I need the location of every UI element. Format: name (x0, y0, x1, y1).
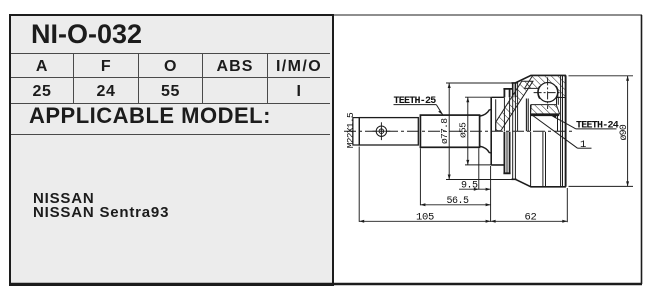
centerline (344, 130, 575, 132)
ext line face (490, 166, 492, 222)
outer race top band hatch (525, 75, 566, 97)
spline bore thick line (530, 113, 559, 116)
boot groove middle line (506, 132, 508, 174)
dim 62 (491, 220, 568, 222)
leader TEETH-24 (551, 115, 576, 129)
neck inner face line (495, 99, 497, 131)
neck top (480, 97, 504, 116)
dim phi90 line (627, 76, 629, 187)
cage lines left (525, 99, 527, 132)
table row line 1 (11, 53, 330, 54)
flange ring bottom (513, 132, 516, 180)
flange ring top (512, 83, 517, 97)
svg-text:9.5: 9.5 (461, 181, 478, 192)
svg-text:ø55: ø55 (458, 122, 469, 138)
value A 25 (11, 83, 73, 101)
table col line 2 (138, 54, 139, 103)
value F 24 (74, 83, 138, 101)
svg-text:105: 105 (416, 212, 434, 224)
value O 55 (139, 83, 202, 101)
svg-text:56.5: 56.5 (447, 196, 470, 207)
dim phi55 line (467, 97, 469, 165)
neck section edge lines (503, 97, 505, 131)
leader TEETH-25 (394, 104, 437, 106)
applicable model heading (29, 103, 271, 129)
table col line 4 (267, 54, 268, 103)
cone and body bottom (515, 179, 566, 187)
drawing frame top (332, 14, 642, 16)
header ABS (203, 58, 267, 76)
threaded shaft M22X1.5 (359, 118, 418, 145)
housing back face line (490, 97, 492, 165)
dim 56.5 (420, 204, 490, 206)
table row line 3 (11, 103, 330, 104)
ball crosshair horizontal (534, 92, 562, 94)
spline shaft TEETH-25 (420, 115, 479, 147)
table col line 1 (73, 54, 74, 103)
boot groove top (503, 89, 512, 97)
value I/M/O I (268, 83, 330, 101)
housing right face (565, 75, 567, 186)
table row line 2 (11, 77, 330, 78)
header A (11, 58, 73, 76)
dim 105 (359, 220, 490, 222)
header F (74, 58, 138, 76)
ball (538, 83, 557, 102)
dim phi77.8 line (448, 83, 450, 180)
svg-text:M22X1.5: M22X1.5 (345, 112, 356, 148)
housing outline bottom half (480, 146, 504, 165)
table row line 4 (11, 134, 330, 135)
ext line 105 left (358, 147, 360, 222)
title NI-O-032 (31, 19, 142, 50)
back wall hatch band (496, 81, 533, 131)
inner section lines bottom half (530, 132, 532, 187)
cage lines right (556, 98, 558, 105)
inner race hatch (531, 105, 560, 114)
header O (139, 58, 202, 76)
center mark circle (376, 126, 386, 136)
ext line 9.5 left (478, 148, 480, 189)
model list (33, 192, 169, 221)
leader 1 (532, 115, 578, 149)
svg-text:1: 1 (580, 139, 586, 151)
face ring lines (560, 75, 562, 186)
dim 9.5 (459, 188, 491, 190)
thread end cap (353, 118, 359, 145)
body top and cone top (515, 75, 566, 83)
drawing frame bottom (9, 283, 642, 285)
spec table (9, 14, 334, 286)
ball crosshair vertical (547, 77, 549, 109)
header I/M/O (268, 58, 330, 76)
svg-text:62: 62 (525, 212, 537, 224)
ext line 62 right (566, 188, 568, 222)
svg-text:ø77.8: ø77.8 (439, 118, 450, 144)
drawing frame right (641, 15, 643, 284)
table col line 3 (202, 54, 203, 103)
svg-text:TEETH-25: TEETH-25 (394, 96, 437, 107)
ext line 56.5 left (419, 148, 421, 205)
race shoulder arcs (538, 86, 558, 99)
svg-text:ø90: ø90 (618, 124, 629, 140)
boot groove bottom (503, 132, 510, 174)
svg-text:TEETH-24: TEETH-24 (576, 120, 619, 131)
